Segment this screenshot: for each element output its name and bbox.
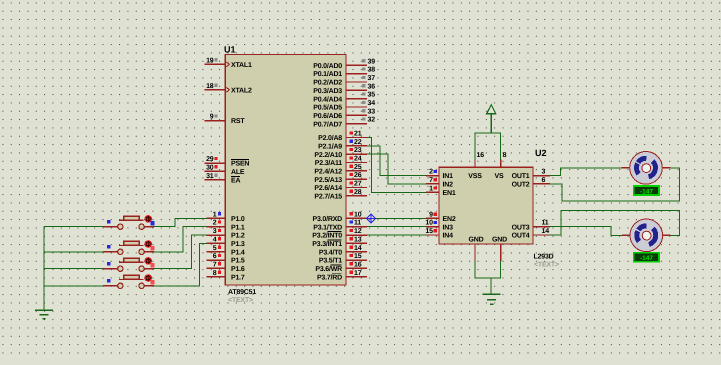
U1 right pin name P2.1/A9 (318, 142, 342, 150)
U2 pin 14 OUT4 stub (533, 234, 550, 236)
U1 right pin name P2.3/A11 (315, 159, 343, 167)
U1 pin 29 PSEN stub (205, 162, 226, 164)
U1 pin 36 state square (362, 84, 365, 87)
U1 pin 9 number (210, 114, 214, 121)
U1 right pin name P0.4/AD4 (313, 95, 342, 103)
push button SW4 blade (119, 278, 144, 280)
svg-text:AT89C51: AT89C51 (228, 289, 256, 296)
svg-text:RST: RST (231, 118, 245, 125)
U2 pin 7 number (429, 177, 433, 184)
U1 right pin name P3.2/INT0 (312, 232, 342, 240)
U1 pin 15 P3.5/T1 stub (346, 259, 367, 261)
push button SW3 left state square (107, 262, 110, 265)
U1 pin 33 P0.6/AD6 stub (346, 114, 367, 116)
svg-text:21: 21 (354, 131, 362, 138)
U1 pin 27 P2.6/A14 stub (346, 187, 367, 189)
U2 pin 9 state square (434, 213, 437, 216)
motor M2 left terminal stub (622, 234, 631, 236)
U1 pin 14 P3.4/T0 stub (346, 251, 367, 253)
svg-text:IN2: IN2 (443, 182, 454, 189)
U2 GND bottom stub right (500, 244, 502, 261)
svg-text:5: 5 (213, 245, 217, 252)
push button SW2 right state square (150, 246, 154, 250)
ground symbol bottom left (35, 310, 53, 318)
U1 pin 6 state square (218, 254, 221, 257)
U1 pin 9 state square (215, 114, 218, 117)
push button SW1 terminals (118, 224, 145, 229)
svg-text:16: 16 (477, 152, 485, 159)
svg-text:P0.6/AD6: P0.6/AD6 (313, 112, 342, 120)
U1 pin 23 state square (350, 148, 353, 151)
wire power rail to VSS and VS pins (475, 133, 501, 160)
U1 pin 34 number (368, 100, 376, 107)
svg-text:35: 35 (368, 92, 376, 99)
svg-text:14: 14 (354, 245, 362, 252)
svg-text:15: 15 (354, 253, 362, 260)
U1 pin 36 number (368, 83, 376, 90)
svg-text:9: 9 (210, 114, 214, 121)
U1 TEXT placeholder (228, 297, 253, 304)
U1 pin 16 P3.6/WR stub (346, 267, 367, 269)
U1 pin 4 state square (218, 237, 221, 240)
U1 pin 9 RST stub (205, 120, 226, 122)
svg-text:GND: GND (492, 237, 507, 244)
push button SW4 left state square (107, 279, 110, 282)
U1 pin 12 number (354, 228, 362, 235)
U1 pin 5 P1.4 stub (207, 251, 226, 253)
wire ground bus to SW1 left terminal (44, 226, 118, 228)
svg-text:P1.1: P1.1 (231, 224, 245, 231)
wire SW3 to P1.2 (144, 235, 206, 269)
U1 pin 6 number (213, 253, 217, 260)
svg-text:19: 19 (206, 57, 214, 64)
U1 pin 13 number (354, 236, 362, 243)
U1 pin 21 P2.0/A8 stub (346, 137, 367, 139)
U1 pin 10 P3.0/RXD stub (346, 217, 367, 219)
U1 pin 8 number (213, 270, 217, 277)
U1 pin 7 number (213, 261, 217, 268)
U1 left pin name EA (overline) (231, 176, 240, 184)
U1 right pin name P3.1/TXD (313, 223, 342, 231)
U1 pin 38 number (368, 67, 376, 74)
svg-text:8: 8 (503, 152, 507, 159)
U1 pin 1 P1.0 stub (207, 217, 226, 219)
U1 right pin name P0.5/AD5 (313, 104, 342, 112)
U1 pin 1 state square (218, 212, 221, 215)
U1 pin 32 number (368, 117, 376, 124)
svg-text:P1.5: P1.5 (231, 258, 245, 265)
svg-text:7: 7 (429, 177, 433, 184)
U2 pin 9 EN2 stub (426, 217, 439, 219)
svg-text:22: 22 (354, 139, 362, 146)
wire SW1 to P1.0 (144, 218, 206, 226)
svg-text:P2.5/A13: P2.5/A13 (314, 176, 342, 184)
svg-text:P0.1/AD1: P0.1/AD1 (313, 70, 342, 78)
U1 pin 33 number (368, 108, 376, 115)
push button SW2 terminals (118, 249, 145, 254)
U1 pin 38 P0.1/AD1 stub (346, 73, 367, 75)
svg-text:P1.4: P1.4 (231, 249, 245, 256)
U2 internal pin name OUT4 (512, 233, 530, 240)
motor M2 body (630, 219, 663, 252)
svg-text:27: 27 (354, 181, 362, 188)
U1 pin 21 state square (350, 131, 353, 134)
svg-text:12: 12 (354, 228, 362, 235)
svg-text:-147: -147 (640, 255, 653, 262)
svg-text:OUT1: OUT1 (512, 173, 530, 180)
power symbol VCC arrow above U2 (487, 105, 496, 133)
svg-text:P1.0: P1.0 (231, 216, 245, 223)
U1 pin 29 state square (215, 157, 218, 160)
U2 pin 16 VSS top stub (474, 160, 476, 168)
svg-text:EA: EA (231, 177, 240, 184)
wire ground bus vertical (43, 227, 45, 311)
U1 left pin name PSEN (overline) (231, 160, 249, 168)
U1 pin 8 P1.7 stub (207, 276, 226, 278)
push button SW3 actuator (144, 257, 152, 265)
svg-text:33: 33 (368, 108, 376, 115)
U1 pin 25 state square (350, 165, 353, 168)
motor M1 hub (642, 164, 651, 173)
svg-text:GND: GND (469, 237, 484, 244)
wire OUT3 to motor M2 left (550, 227, 622, 236)
U1 pin 35 number (368, 92, 376, 99)
ground symbol below U2 (483, 294, 501, 304)
push button SW2 left state square (107, 245, 110, 248)
U1 pin 16 state square (350, 262, 353, 265)
svg-text:P3.7/RD: P3.7/RD (317, 273, 342, 281)
svg-text:P3.3/INT1: P3.3/INT1 (312, 240, 342, 248)
U2 pin 7 IN2 stub (426, 183, 439, 185)
svg-text:29: 29 (206, 156, 214, 163)
U1 pin 36 P0.3/AD3 stub (346, 89, 367, 91)
svg-text:37: 37 (368, 75, 376, 82)
U1 left pin name P1.0 (231, 216, 245, 223)
U1 pin 34 state square (362, 101, 365, 104)
U1 pin 24 number (354, 156, 362, 163)
U2 reference label (535, 148, 547, 158)
wire SW4 to P1.3 (144, 243, 206, 285)
svg-text:VS: VS (495, 173, 504, 180)
U1 right pin name P2.5/A13 (314, 176, 342, 184)
svg-text:L293D: L293D (534, 254, 554, 261)
U1 pin 19 state square (215, 58, 218, 61)
U1 pin 26 number (354, 172, 362, 179)
svg-text:34: 34 (368, 100, 376, 107)
U2 internal pin name EN2 (443, 216, 456, 223)
U2 pin 2 state square (434, 170, 437, 173)
svg-text:2: 2 (213, 220, 217, 227)
U1 pin 12 state square (350, 229, 353, 232)
U1 value label AT89C51 (228, 289, 256, 296)
svg-text:24: 24 (354, 156, 362, 163)
U1 pin 22 number (354, 139, 362, 146)
U1 right pin name P0.0/AD0 (313, 62, 342, 70)
wire U2 GND pins to ground (475, 261, 501, 294)
U2 pin 10 state square (434, 221, 437, 224)
U1 pin 22 P2.1/A9 stub (346, 145, 367, 147)
U1 pin 19 number (206, 57, 214, 64)
wire P2.0/A8 to EN1 (367, 138, 426, 193)
U1 pin 37 P0.2/AD2 stub (346, 81, 367, 83)
svg-text:XTAL2: XTAL2 (231, 87, 252, 94)
U1 left pin name XTAL1 (231, 62, 252, 69)
XTAL1 clock chevron (226, 62, 229, 67)
U1 pin 1 number (213, 211, 217, 218)
U1 right pin name P0.6/AD6 (313, 112, 342, 120)
U1 pin 17 state square (350, 271, 353, 274)
svg-text:P0.5/AD5: P0.5/AD5 (313, 104, 342, 112)
U1 pin 8 state square (218, 271, 221, 274)
svg-text:IN4: IN4 (443, 233, 454, 240)
U2 internal pin name IN1 (443, 173, 454, 180)
U2 internal pin name IN3 (443, 224, 454, 231)
wire P2.2/A10 to IN2 (367, 154, 426, 184)
motor driver U2 L293D body (439, 167, 533, 244)
svg-text:P2.6/A14: P2.6/A14 (314, 184, 342, 192)
svg-text:30: 30 (206, 164, 214, 171)
U1 pin 6 P1.5 stub (207, 259, 226, 261)
svg-text:PSEN: PSEN (231, 161, 249, 168)
svg-text:P1.2: P1.2 (231, 233, 245, 240)
wire P3.0/RXD to EN2 (367, 217, 426, 219)
svg-text:P0.2/AD2: P0.2/AD2 (313, 79, 342, 87)
U1 pin 26 state square (350, 173, 353, 176)
svg-text:11: 11 (542, 220, 549, 227)
motor M1 rpm display (634, 186, 659, 195)
U1 pin 39 P0.0/AD0 stub (346, 64, 367, 66)
svg-text:IN3: IN3 (443, 224, 454, 231)
U1 right pin name P2.0/A8 (318, 134, 342, 142)
wire OUT4 to motor M2 right (550, 210, 679, 235)
U2 pin 15 state square (434, 229, 437, 232)
svg-text:P0.7/AD7: P0.7/AD7 (313, 120, 342, 128)
svg-text:U2: U2 (535, 148, 547, 158)
svg-text:31: 31 (206, 173, 214, 180)
svg-text:P0.3/AD3: P0.3/AD3 (313, 87, 342, 95)
svg-text:P3.1/TXD: P3.1/TXD (313, 223, 342, 231)
svg-text:1: 1 (429, 185, 433, 192)
U1 pin 10 number (354, 211, 362, 218)
U1 right pin name P0.3/AD3 (313, 87, 342, 95)
svg-text:EN1: EN1 (443, 190, 456, 197)
U1 pin 14 state square (350, 246, 353, 249)
U1 pin 37 number (368, 75, 376, 82)
svg-text:OUT2: OUT2 (512, 182, 530, 189)
svg-text:ALE: ALE (231, 169, 245, 176)
U2 pin 8 VS top stub (500, 160, 502, 168)
U2 pin 1 number (429, 185, 433, 192)
U1 pin 35 state square (362, 92, 365, 95)
U1 pin 34 P0.5/AD5 stub (346, 106, 367, 108)
U1 pin 5 number (213, 245, 217, 252)
svg-text:VSS: VSS (468, 173, 482, 180)
svg-text:15: 15 (425, 228, 433, 235)
svg-text:25: 25 (354, 164, 362, 171)
push button SW1 right state square (150, 221, 154, 225)
U1 pin 38 state square (362, 67, 365, 70)
svg-text:P1.6: P1.6 (231, 266, 245, 273)
U1 right pin name P3.4/T0 (319, 248, 342, 256)
svg-text:<TEXT>: <TEXT> (228, 297, 253, 304)
U1 left pin name XTAL2 (231, 87, 252, 94)
svg-text:P2.7/A15: P2.7/A15 (314, 192, 342, 200)
svg-text:OUT3: OUT3 (512, 224, 530, 231)
U1 pin 2 number (213, 220, 217, 227)
U1 pin 39 state square (362, 59, 365, 62)
U2 pin 2 IN1 stub (426, 175, 439, 177)
U1 right pin name P3.7/RD (317, 273, 342, 281)
U1 pin 3 P1.2 stub (207, 234, 226, 236)
svg-text:11: 11 (354, 220, 361, 227)
U1 pin 31 EA stub (205, 179, 226, 181)
wire ground bus to SW2 left terminal (44, 251, 118, 253)
U1 pin 32 P0.7/AD7 stub (346, 123, 367, 125)
U1 pin 23 P2.2/A10 stub (346, 153, 367, 155)
U2 pin 14 number (542, 228, 550, 235)
U1 pin 33 state square (362, 109, 365, 112)
U1 pin 4 number (213, 236, 217, 243)
svg-text:17: 17 (354, 270, 362, 277)
U1 left pin name P1.3 (231, 241, 245, 248)
svg-text:EN2: EN2 (443, 216, 456, 223)
svg-text:U1: U1 (224, 45, 236, 55)
U2 pin 15 number (425, 228, 433, 235)
U2 internal pin name OUT3 (512, 224, 530, 231)
U2 pin 10 IN3 stub (426, 226, 439, 228)
U1 left pin name P1.7 (231, 274, 245, 281)
push button SW4 terminals (118, 283, 145, 288)
svg-text:P3.5/T1: P3.5/T1 (319, 257, 342, 265)
U1 pin 28 state square (350, 190, 353, 193)
push button SW2 blade (119, 244, 144, 246)
push button SW4 actuator (144, 274, 152, 282)
U1 pin 2 P1.1 stub (207, 226, 226, 228)
U1 left pin name RST (231, 118, 245, 125)
op-amp U1 AT89C51 microcontroller body (225, 55, 346, 286)
U1 pin 16 number (354, 261, 362, 268)
U2 pin 10 number (425, 220, 433, 227)
U1 pin 13 P3.3/INT1 stub (346, 242, 367, 244)
push button SW3 blade (119, 261, 144, 263)
U1 pin 10 state square (350, 212, 353, 215)
motor M1 rotor blades (637, 158, 656, 177)
motor M1 left terminal stub (622, 167, 631, 169)
U2 GND bottom stub left (474, 244, 476, 261)
svg-text:10: 10 (354, 211, 362, 218)
U2 pin 2 number (429, 169, 433, 176)
U1 right pin name P0.1/AD1 (313, 70, 342, 78)
svg-text:P1.7: P1.7 (231, 274, 245, 281)
U2 internal pin name VSS (468, 173, 482, 180)
U1 right pin name P2.4/A12 (314, 167, 342, 175)
push button SW1 left state square (107, 220, 110, 223)
push button SW3 terminals (118, 266, 145, 271)
svg-text:7: 7 (213, 261, 217, 268)
U2 pin 11 OUT3 stub (533, 226, 550, 228)
svg-text:16: 16 (354, 261, 362, 268)
motor M1 body (630, 152, 663, 185)
push button SW1 actuator (144, 215, 152, 223)
wire ground bus to SW4 left terminal (44, 285, 118, 287)
U1 pin 17 number (354, 270, 362, 277)
push button SW1 blade (119, 219, 144, 221)
svg-text:3: 3 (213, 228, 217, 235)
U1 pin 30 ALE stub (205, 170, 226, 172)
U1 pin 12 P3.2/INT0 stub (346, 234, 367, 236)
U1 pin 25 P2.4/A12 stub (346, 170, 367, 172)
svg-text:<TEXT>: <TEXT> (534, 262, 559, 269)
U1 pin 23 number (354, 147, 362, 154)
motor M2 rotor blades (637, 226, 656, 245)
XTAL2 clock chevron (226, 87, 229, 92)
U1 pin 3 state square (218, 229, 221, 232)
U2 internal pin name IN2 (443, 182, 454, 189)
svg-text:P3.4/T0: P3.4/T0 (319, 248, 342, 256)
svg-text:P2.0/A8: P2.0/A8 (318, 134, 342, 142)
U2 pin 1 EN1 stub (426, 191, 439, 193)
U1 right pin name P0.2/AD2 (313, 79, 342, 87)
push button SW4 cap (124, 275, 139, 279)
U1 left pin name P1.2 (231, 233, 245, 240)
U2 internal pin name OUT2 (512, 182, 530, 189)
U2 pin 3 OUT1 stub (533, 175, 550, 177)
motor M1 right terminal stub (662, 167, 671, 169)
U1 right pin name P3.6/WR (315, 265, 342, 273)
U2 pin 1 state square (434, 187, 437, 190)
U1 pin 30 state square (215, 165, 218, 168)
U1 left pin name P1.4 (231, 249, 245, 256)
svg-text:28: 28 (354, 189, 362, 196)
U1 pin 31 number (206, 173, 214, 180)
U2 pin 3 number (542, 169, 546, 176)
svg-text:8: 8 (213, 270, 217, 277)
svg-text:P2.2/A10: P2.2/A10 (314, 151, 342, 159)
wire ground bus to SW3 left terminal (44, 268, 118, 270)
motor M2 rpm display (634, 253, 659, 262)
svg-text:9: 9 (429, 211, 433, 218)
svg-text:P0.4/AD4: P0.4/AD4 (313, 95, 342, 103)
svg-text:6: 6 (542, 177, 546, 184)
U1 pin 5 state square (218, 246, 221, 249)
U2 pin 6 number (542, 177, 546, 184)
U1 pin 39 number (368, 58, 376, 65)
U1 pin 35 P0.4/AD4 stub (346, 98, 367, 100)
svg-text:14: 14 (542, 228, 550, 235)
svg-text:4: 4 (213, 236, 217, 243)
U1 pin 4 P1.3 stub (207, 242, 226, 244)
U1 pin 19 XTAL1 stub (205, 63, 226, 65)
U1 pin 7 state square (218, 262, 221, 265)
svg-text:13: 13 (354, 236, 362, 243)
U1 pin 24 state square (350, 156, 353, 159)
wire SW2 to P1.1 (144, 227, 206, 252)
push button SW4 right state square (150, 280, 154, 284)
svg-text:1: 1 (213, 211, 217, 218)
svg-text:P1.3: P1.3 (231, 241, 245, 248)
wire P2.1/A9 to IN1 (367, 146, 426, 176)
U1 right pin name P2.7/A15 (314, 192, 342, 200)
U1 pin 25 number (354, 164, 362, 171)
U1 pin 13 state square (350, 237, 353, 240)
svg-text:XTAL1: XTAL1 (231, 62, 252, 69)
push button SW2 cap (124, 241, 139, 245)
svg-text:P2.1/A9: P2.1/A9 (318, 142, 342, 150)
U1 pin 26 P2.5/A13 stub (346, 178, 367, 180)
U1 pin 11 P3.1/TXD stub (346, 226, 367, 228)
U1 left pin name ALE (231, 169, 245, 176)
svg-text:39: 39 (368, 58, 376, 65)
